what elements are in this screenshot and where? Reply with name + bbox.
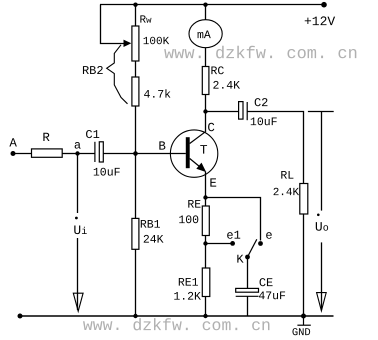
switch K pivot [245, 255, 250, 260]
svg-text:e1: e1 [226, 229, 240, 243]
svg-text:mA: mA [197, 29, 211, 42]
wire node a down to Ui [77, 154, 79, 214]
svg-text:CE: CE [259, 276, 273, 290]
wire base to transistor [135, 153, 186, 155]
emitter arrowhead [196, 163, 206, 173]
wire 4.7k to base node [135, 106, 137, 153]
wire Rw top stem [135, 5, 137, 27]
svg-text:B: B [158, 140, 166, 154]
brace RB2 [107, 45, 128, 104]
source Ui phasor dot [75, 217, 78, 220]
wire input A to R [13, 153, 32, 155]
svg-text:47uF: 47uF [258, 290, 286, 303]
wire emitter to E node [205, 172, 207, 198]
wire mA to RC [205, 48, 207, 67]
svg-text:2.4K: 2.4K [212, 80, 240, 93]
switch K lever [248, 239, 257, 257]
node E [203, 195, 207, 199]
node e [258, 241, 263, 246]
node base junction [133, 151, 138, 156]
wire C2 to RL corner [247, 112, 303, 184]
collector lead [190, 131, 206, 143]
power +12V [321, 2, 327, 8]
wire potentiometer feedback loop [101, 5, 124, 44]
svg-text:Rw: Rw [139, 15, 152, 27]
svg-text:10uF: 10uF [93, 167, 121, 180]
svg-text:E: E [209, 177, 217, 191]
svg-text:+12V: +12V [304, 14, 335, 29]
base bar [186, 137, 190, 168]
terminal A [11, 151, 16, 156]
wire R to node a [62, 153, 78, 155]
resistor 4.7k [132, 77, 139, 106]
node RE1 ground [203, 314, 207, 318]
resistor R [32, 149, 63, 157]
wire RE bottom node to RE1 [205, 244, 207, 269]
capacitor CE [236, 288, 259, 296]
svg-text:www. dzkfw. com. cn: www. dzkfw. com. cn [164, 45, 358, 64]
wire E node to RE [205, 198, 207, 207]
wire RL to ground node [303, 214, 305, 316]
wire top rail +12V [100, 4, 324, 6]
source Uo phasor dot [317, 214, 320, 217]
svg-text:GND: GND [292, 327, 311, 339]
wire base rail to RB1 [135, 154, 137, 219]
svg-text:www. dzkfw. com. cn: www. dzkfw. com. cn [83, 316, 271, 335]
svg-text:RE1: RE1 [178, 277, 199, 290]
svg-text:C: C [207, 121, 215, 135]
wire RB1 to ground rail [135, 249, 137, 316]
node RB1 ground [133, 314, 137, 318]
wire switch pivot to CE [247, 257, 249, 288]
svg-text:RC: RC [210, 65, 224, 78]
svg-text:RE: RE [187, 199, 201, 212]
svg-text:100: 100 [178, 214, 199, 227]
wire collector node to C2 [206, 111, 239, 113]
node top rail mA [203, 2, 207, 6]
wire RC to collector node [205, 95, 207, 132]
wire RE1 to ground rail [205, 297, 207, 317]
resistor RE1 [202, 268, 210, 297]
resistor RB1 [132, 218, 139, 249]
node top rail Rw [133, 2, 137, 6]
wire C1 to base node [103, 153, 134, 155]
node RE bottom [203, 241, 207, 245]
node ground rail left terminal [18, 314, 23, 319]
wire RE bottom node to e1 [206, 243, 232, 245]
wire RE to RE bottom node [205, 236, 207, 244]
svg-text:R: R [42, 131, 50, 145]
svg-text:C2: C2 [254, 96, 268, 110]
svg-text:e: e [265, 229, 272, 243]
capacitor C1 [95, 142, 103, 162]
ground GND symbol [297, 316, 310, 325]
svg-text:1.2K: 1.2K [173, 291, 201, 304]
resistor RC [202, 67, 209, 95]
svg-text:RL: RL [280, 170, 294, 183]
svg-text:a: a [74, 139, 81, 153]
transistor T [170, 130, 217, 177]
wire Uo probe top bar [308, 111, 334, 113]
capacitor C2 [239, 102, 248, 121]
wire Uo lower segment [321, 242, 323, 309]
svg-text:RB2: RB2 [82, 64, 104, 78]
wire Rw to 4.7k [135, 61, 137, 77]
svg-text:K: K [236, 253, 244, 267]
svg-text:2.4K: 2.4K [273, 187, 300, 199]
svg-text:4.7k: 4.7k [143, 89, 171, 102]
svg-text:T: T [200, 143, 208, 158]
meter mA [189, 20, 222, 48]
wire Uo upper segment [321, 112, 323, 211]
svg-text:24K: 24K [143, 234, 164, 247]
svg-text:C1: C1 [85, 128, 99, 142]
node RL ground [301, 314, 306, 319]
wire E node to switch terminal e [206, 198, 261, 241]
potentiometer wiper arrow [124, 40, 132, 47]
node a [75, 151, 79, 155]
svg-text:10uF: 10uF [250, 116, 278, 129]
node e1 [230, 241, 235, 246]
svg-text:A: A [9, 137, 17, 151]
wire CE to ground rail [247, 296, 249, 316]
emitter lead [190, 159, 203, 170]
resistor Rw 100K (potentiometer body) [132, 26, 139, 61]
svg-text:100K: 100K [143, 36, 170, 48]
arrow Uo [317, 293, 327, 311]
svg-text:RB1: RB1 [140, 219, 161, 232]
wire Ui lower segment [77, 238, 79, 310]
wire mA top stem [205, 5, 207, 20]
resistor RE [202, 206, 209, 236]
node collector/C2 junction [203, 109, 207, 113]
arrow Ui [73, 293, 83, 311]
wire ground rail bottom [20, 315, 334, 317]
wire node a to C1 [78, 153, 95, 155]
resistor RL [300, 184, 308, 215]
